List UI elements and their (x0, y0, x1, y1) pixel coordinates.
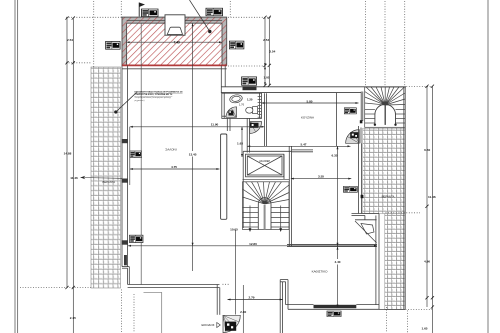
svg-text:ΚΟΥΖΙΝΑ: ΚΟΥΖΙΝΑ (301, 115, 314, 119)
svg-text:2.40: 2.40 (240, 310, 246, 314)
svg-text:1.20: 1.20 (247, 97, 253, 101)
annotation text block (135, 90, 184, 102)
red hatch area (122, 17, 227, 65)
bathroom sink (229, 94, 243, 104)
red bottom line of roof block (122, 64, 227, 66)
marker M1 (142, 9, 159, 17)
far right pair (426, 86, 428, 307)
marker M13 (327, 311, 341, 317)
corridor door near stair (346, 130, 360, 144)
svg-text:13.45: 13.45 (189, 152, 197, 156)
svg-text:4.75: 4.75 (171, 165, 177, 169)
wall from hatch to top wall (221, 65, 225, 93)
svg-text:ΚΑΘΙΣΤΙΚΟ: ΚΑΘΙΣΤΙΚΟ (312, 270, 329, 274)
dim arrows (127, 23, 377, 307)
svg-text:3.54: 3.54 (269, 50, 275, 54)
marker M6 (344, 108, 356, 114)
svg-text:ΚΑΤΑΣΚΕΥΗ ΝΕΑΣ ΠΛΑΚΑΣ ΣΚΥΡΟΔΕΜ: ΚΑΤΑΣΚΕΥΗ ΝΕΑΣ ΠΛΑΚΑΣ ΣΚΥΡΟΔΕΜΑΤΟΣ ΣΕ (135, 90, 184, 93)
svg-text:ΥΠΑΡΧΟΥΣΑ ΔΟΚΟ, ΣΥΜΦΩΝΑ ΜΕ ΤΗ: ΥΠΑΡΧΟΥΣΑ ΔΟΚΟ, ΣΥΜΦΩΝΑ ΜΕ ΤΗ (135, 93, 173, 96)
svg-text:ΒΕΡΑΝΤΑ: ΒΕΡΑΝΤΑ (102, 180, 115, 184)
sitting room right wall (376, 214, 379, 310)
section flag (139, 3, 145, 17)
svg-text:14.88: 14.88 (64, 152, 72, 156)
main stair (243, 179, 290, 230)
svg-text:3.55: 3.55 (318, 175, 324, 179)
svg-text:ΒΕΡΑΝΤΑ: ΒΕΡΑΝΤΑ (382, 195, 395, 199)
svg-text:10.65: 10.65 (230, 228, 238, 232)
bottom wall sitting room with window (286, 305, 379, 310)
veranda tiles right upper (363, 128, 405, 213)
top leader line (190, 0, 210, 32)
svg-text:11.90: 11.90 (211, 123, 219, 127)
svg-text:4.40: 4.40 (334, 260, 340, 264)
corridor L wall bottom center (280, 280, 288, 333)
marker M12 (130, 151, 142, 158)
svg-text:2.54: 2.54 (263, 38, 269, 42)
fireplace wedge (355, 221, 377, 243)
svg-text:μηχανικου): μηχανικου) (135, 100, 145, 102)
stub wall at corridor door (359, 126, 361, 143)
duct hatch stripes (258, 97, 262, 118)
hall pier wall (221, 134, 227, 219)
svg-text:ΑΣΑΝΣΕΡ: ΑΣΑΝΣΕΡ (259, 160, 270, 163)
bathroom door swing (226, 107, 237, 118)
interior vertical line x140 (140, 23, 142, 284)
marker M5 (242, 77, 257, 85)
window band bottom (314, 305, 357, 308)
chimney skylight box (165, 15, 185, 35)
sheet border right line (487, 0, 489, 333)
svg-text:5.47: 5.47 (300, 142, 306, 146)
svg-text:1.65: 1.65 (421, 327, 427, 331)
svg-text:11.46: 11.46 (428, 195, 436, 199)
window jambs on left wall (122, 139, 129, 265)
sheet border left double line (15, 0, 18, 333)
bottom wall line under red line (122, 68, 227, 70)
kitchen left wall (264, 93, 266, 146)
sitting room top wall (on 12.80 line) (287, 245, 377, 247)
svg-text:2.79: 2.79 (248, 296, 254, 300)
kitchen lower wall (289, 146, 313, 152)
svg-text:1.63: 1.63 (237, 141, 243, 145)
svg-text:ΕΙΣΟΔΟΣ: ΕΙΣΟΔΟΣ (201, 323, 214, 327)
right terrace parapet (379, 87, 405, 310)
window in top wall (243, 86, 257, 90)
dim ticks (65, 16, 434, 309)
marker boxes (106, 8, 358, 316)
living room left wall (122, 65, 129, 284)
svg-text:4.96: 4.96 (424, 260, 430, 264)
dim 7.49 inside hatch (127, 41, 222, 43)
hatched roof block walls grey fill (122, 17, 227, 65)
bathroom walls (222, 93, 262, 118)
svg-text:6.50: 6.50 (424, 148, 430, 152)
svg-text:6.35: 6.35 (331, 153, 337, 157)
svg-text:11.46: 11.46 (70, 176, 78, 180)
svg-text:2.45: 2.45 (70, 316, 76, 320)
fireplace corner wall (352, 214, 380, 220)
stair left double wall (361, 92, 363, 122)
veranda tiles left (91, 67, 121, 288)
top wall of middle section (221, 87, 406, 93)
hatch block outline (122, 17, 227, 65)
kitchen right wall (336, 93, 338, 147)
east wall segment (359, 143, 362, 213)
marker M9 (344, 186, 358, 192)
fan stair top right (365, 87, 405, 127)
svg-text:1.76: 1.76 (239, 102, 245, 106)
left pair (66, 18, 68, 288)
entrance door swing (223, 315, 240, 332)
svg-text:Σκυροδεμα/πλακα (λεπτομερεια μ: Σκυροδεμα/πλακα (λεπτομερεια μελετης (135, 97, 171, 99)
svg-text:5.80: 5.80 (306, 99, 312, 103)
veranda leader arrow left (81, 176, 123, 179)
dimension lines (67, 17, 432, 333)
elevator shaft (246, 154, 284, 177)
door below bathroom (250, 122, 262, 134)
svg-text:ΣΑΛΟΝΙ: ΣΑΛΟΝΙ (165, 148, 176, 152)
exterior step lines bottom-left (144, 292, 162, 333)
column blob (361, 195, 364, 198)
marker M10 (130, 235, 143, 242)
veranda tiles right lower (385, 214, 405, 310)
svg-text:7.49: 7.49 (174, 40, 180, 44)
wall stubs below bathroom (227, 118, 249, 152)
bottom wall of living room (128, 285, 220, 315)
interior dims (130, 126, 265, 128)
svg-text:12.80: 12.80 (249, 242, 257, 246)
dim labels (64, 38, 436, 331)
svg-text:1.00: 1.00 (263, 76, 269, 80)
marker M2 (206, 8, 223, 16)
bathroom toilet (246, 107, 258, 114)
right-of-hatch pair (264, 17, 266, 85)
elevator top wall (243, 151, 291, 246)
annotation leader (116, 93, 137, 113)
svg-text:2.54: 2.54 (67, 38, 73, 42)
marker M3 (106, 41, 121, 49)
marker M4 (229, 41, 244, 49)
